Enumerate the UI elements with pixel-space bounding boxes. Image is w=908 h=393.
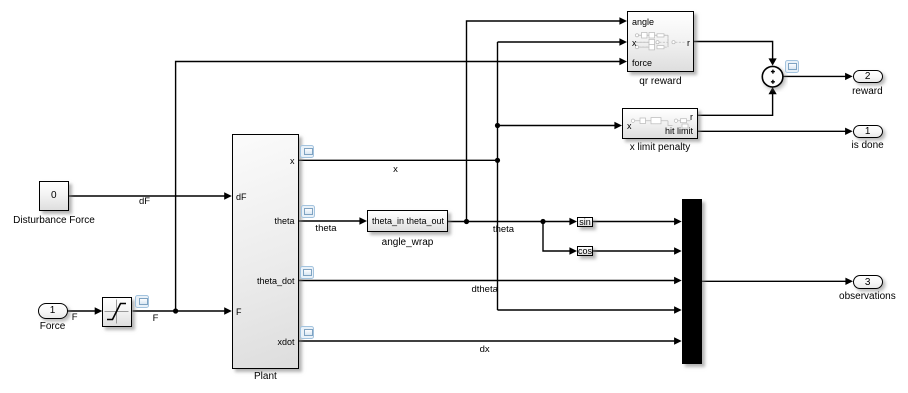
wire label F after saturation [153,314,159,324]
wire x limit penalty r to sum bottom [698,94,773,116]
wire sin to mux [593,221,675,223]
icon preview qr reward [628,12,695,73]
wire hit limit to is done [698,130,846,132]
port label x [632,38,637,48]
port label theta_in [372,216,404,226]
wire mux to observations [702,280,847,282]
wire x to x limit penalty [498,125,616,127]
wire label F before saturation [72,313,78,323]
wire dtheta Plant to mux [299,280,676,282]
wire cos to mux [593,250,675,252]
label Plant [254,371,277,382]
port label xdot [277,337,294,347]
wire angle_wrap out to sin [448,221,571,223]
port label theta_out [406,216,444,226]
wire x vertical branch [497,42,499,310]
wire label theta (right) [493,225,514,235]
badge on Plant theta_dot output [300,266,314,279]
mux block [682,199,702,364]
label x limit penalty [630,142,691,153]
wire x to mux input4 [498,309,676,311]
wire angle branch up to qr reward [467,21,621,222]
badge on Plant x output [300,145,314,158]
arrow into Plant F [224,307,232,314]
port label angle [632,17,654,27]
label Disturbance Force [13,215,95,226]
wire label theta (left) [315,224,336,234]
label qr reward [639,76,681,87]
port label force [632,58,652,68]
arrow into Plant dF [224,192,232,199]
arrow into qr reward angle [619,17,627,24]
label is done [851,140,883,151]
arrow into qr reward force [619,58,627,65]
junction x limit branch [495,123,500,128]
port label theta [274,216,294,226]
arrow into sum top [769,58,777,65]
wire x to qr reward x input [498,41,621,43]
wire theta Plant to angle_wrap [299,220,361,222]
junction theta-angle branch [464,219,469,224]
junction x wire [495,158,500,163]
arrow into mux input2 [674,247,682,254]
trig block cos [577,246,593,257]
port label x [627,121,632,131]
port label dF [236,192,247,202]
badge on Plant xdot output [300,326,314,339]
outport reward [853,70,883,83]
wire dx Plant to mux [299,340,676,342]
wire Saturation to Plant F [133,310,225,312]
arrow into qr reward x [619,38,627,45]
wire cos branch [543,222,571,252]
label reward [852,86,883,97]
port label x [290,156,295,166]
port label F [236,307,242,317]
port label r [687,38,690,48]
wire dF: constant to Plant [69,195,225,197]
inport Force [38,303,68,319]
wire sum to reward [783,75,846,77]
badge on saturation [135,295,149,308]
wire label dtheta [471,285,497,295]
subsystem qr reward [627,11,694,72]
label observations [839,291,896,302]
arrow into is done [845,128,853,135]
subsystem angle_wrap [367,210,448,232]
saturation block [102,297,132,327]
wire label dx [480,345,490,355]
arrow into observations [845,278,853,285]
arrow into sum bottom [769,87,777,94]
arrow into cos [569,247,577,254]
outport is done [853,125,883,138]
wire label x [393,165,398,175]
icon preview x limit penalty [623,109,699,139]
arrow into mux input4 [674,306,682,313]
outport observations [853,275,883,289]
wire Force to Saturation [68,310,96,312]
subsystem Plant [232,134,299,369]
junction theta-cos branch [540,219,545,224]
arrow into mux input3 [674,277,682,284]
port label r [690,112,693,122]
wire force branch up to qr reward [176,62,621,312]
arrow into sin [569,218,577,225]
arrow into mux input1 [674,218,682,225]
wire label dF [139,197,150,207]
sum block [760,64,788,92]
label angle_wrap [382,237,434,248]
arrow into x limit penalty [614,122,622,129]
arrow into angle_wrap [359,217,367,224]
wire x from Plant [299,159,498,161]
junction F branch [173,308,178,313]
label Force [40,321,66,332]
arrow into reward [845,73,853,80]
port label theta_dot [257,276,295,286]
subsystem x limit penalty [622,108,698,139]
badge on sum [785,60,799,73]
badge on Plant theta output [301,205,315,218]
wire qr reward r to sum top [694,42,773,60]
arrow into mux input5 [674,337,682,344]
arrow into saturation [95,307,103,314]
port label hit limit [665,126,693,136]
trig block sin [577,217,593,228]
constant block Disturbance Force [39,181,69,211]
